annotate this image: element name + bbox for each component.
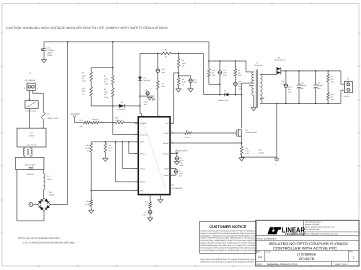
svg-text:250V, 3.15A: 250V, 3.15A <box>48 117 59 120</box>
svg-text:1206: 1206 <box>104 83 108 86</box>
svg-text:FILM: FILM <box>48 54 53 57</box>
svg-text:1206: 1206 <box>104 96 108 99</box>
svg-text:R2: R2 <box>104 88 106 91</box>
svg-text:R8: R8 <box>245 147 247 150</box>
svg-text:L: L <box>37 87 38 90</box>
svg-text:R7: R7 <box>162 82 164 85</box>
svg-text:LTC Confidential-For Customer: LTC Confidential-For Customer Use Only <box>305 232 338 235</box>
svg-text:1mH: 1mH <box>47 178 52 181</box>
svg-text:D6: D6 <box>278 56 280 59</box>
svg-text:R2: R2 <box>182 59 184 62</box>
svg-text:IC NO.: IC NO. <box>266 251 272 254</box>
svg-text:100k: 100k <box>182 62 186 65</box>
svg-text:D2: D2 <box>143 76 145 79</box>
svg-text:20pF: 20pF <box>162 71 166 74</box>
svg-text:27mH: 27mH <box>29 135 35 138</box>
svg-text:THIS CIRCUIT IS PROPRIETARY TO: THIS CIRCUIT IS PROPRIETARY TO LINEAR TE… <box>200 258 255 261</box>
svg-text:6.49k: 6.49k <box>182 81 186 84</box>
svg-text:31.6k: 31.6k <box>108 147 112 150</box>
svg-text:0.05: 0.05 <box>245 150 248 153</box>
svg-text:C21: C21 <box>162 68 165 71</box>
svg-text:CUSTOMER NOTICE: CUSTOMER NOTICE <box>209 225 247 229</box>
svg-text:CTRL3: CTRL3 <box>140 181 145 184</box>
svg-text:11: 11 <box>262 97 264 99</box>
svg-text:CAC1 0.1µF: CAC1 0.1µF <box>24 164 35 167</box>
svg-text:275VAC: 275VAC <box>27 173 35 176</box>
svg-text:C10: C10 <box>193 78 196 81</box>
svg-text:VIN/SNS: VIN/SNS <box>140 122 148 125</box>
svg-text:HD06: HD06 <box>49 194 54 197</box>
svg-text:2.49M 1%: 2.49M 1% <box>115 119 123 122</box>
svg-text:12: 12 <box>262 102 264 104</box>
svg-text:Wednesday, October 01, 2014: Wednesday, October 01, 2014 <box>267 263 298 266</box>
svg-text:R13: R13 <box>82 87 85 90</box>
svg-text:R16: R16 <box>86 200 89 203</box>
svg-text:12: 12 <box>135 133 137 135</box>
svg-text:TECHNOLOGY: TECHNOLOGY <box>285 233 306 236</box>
svg-text:R3: R3 <box>82 72 84 75</box>
svg-text:100k: 100k <box>104 77 108 80</box>
svg-text:R25: R25 <box>115 117 118 120</box>
svg-text:1206: 1206 <box>82 80 86 83</box>
svg-text:CMR1U-1000: CMR1U-1000 <box>218 99 228 102</box>
svg-text:68: 68 <box>165 56 167 59</box>
svg-text:750811296: 750811296 <box>254 64 262 67</box>
svg-text:CONTROLLER WITH ACTIVE PFC: CONTROLLER WITH ACTIVE PFC <box>273 246 337 250</box>
svg-text:CAUTION: HANDLING HIGH VOLTAGE: CAUTION: HANDLING HIGH VOLTAGE INVOLVES … <box>6 26 168 30</box>
svg-text:INTVCC: INTVCC <box>162 152 169 155</box>
svg-text:24.9k: 24.9k <box>85 203 89 206</box>
svg-text:Fax: (408)434-0507: Fax: (408)434-0507 <box>305 228 320 231</box>
svg-text:22pF: 22pF <box>193 81 197 84</box>
svg-text:LT3798MSE: LT3798MSE <box>171 187 183 190</box>
svg-text:R23: R23 <box>80 119 83 122</box>
svg-text:ISOLATED NO OPTO-COUPLER FLYBA: ISOLATED NO OPTO-COUPLER FLYBACK <box>269 242 349 246</box>
svg-text:13: 13 <box>171 152 173 154</box>
svg-text:499k: 499k <box>82 90 86 93</box>
svg-text:90 - 265VAC: 90 - 265VAC <box>25 79 36 82</box>
svg-text:EN_UVLO: EN_UVLO <box>140 133 149 136</box>
svg-text:499k: 499k <box>82 74 86 77</box>
svg-text:10: 10 <box>159 115 161 117</box>
svg-text:C5: C5 <box>145 88 147 91</box>
svg-text:F1: F1 <box>48 112 50 115</box>
svg-text:46.4k: 46.4k <box>85 147 89 150</box>
svg-text:100k: 100k <box>104 91 108 94</box>
svg-text:J1: J1 <box>29 71 31 74</box>
svg-text:SUPPLIED FOR USE WITH LINEAR T: SUPPLIED FOR USE WITH LINEAR TECHNOLOGY … <box>200 261 255 264</box>
svg-text:V1: V1 <box>28 98 30 101</box>
svg-text:R6: R6 <box>165 49 167 52</box>
svg-text:R20: R20 <box>108 144 111 147</box>
svg-text:THE CUSTOMER ASSUMES ALL RESPO: THE CUSTOMER ASSUMES ALL RESPONSIBILITY … <box>200 249 256 252</box>
svg-text:LT3798MSE: LT3798MSE <box>297 253 317 257</box>
svg-text:10: 10 <box>262 73 264 75</box>
svg-text:ACTVCC: ACTVCC <box>179 149 188 152</box>
svg-text:J2: J2 <box>347 78 349 81</box>
svg-text:TITLE: SCHEMATIC: TITLE: SCHEMATIC <box>257 237 277 240</box>
svg-text:1. ALL CAPACITORS AND RESISTOR: 1. ALL CAPACITORS AND RESISTORS ARE 0805… <box>23 241 76 244</box>
svg-text:N/A: N/A <box>258 256 263 259</box>
svg-text:10: 10 <box>171 141 173 143</box>
svg-text:SHEET 1 OF 1: SHEET 1 OF 1 <box>335 263 349 266</box>
svg-text:NOTES: UNLESS OTHERWISE SPECIF: NOTES: UNLESS OTHERWISE SPECIFIED: <box>18 237 61 240</box>
svg-text:R4: R4 <box>182 78 184 81</box>
svg-text:DATE:: DATE: <box>257 263 263 266</box>
svg-text:COMP: COMP <box>164 167 170 170</box>
svg-text:1N4148W: 1N4148W <box>118 108 126 111</box>
svg-text:BAV20W: BAV20W <box>143 79 150 82</box>
svg-text:2200pF: 2200pF <box>259 151 265 154</box>
svg-text:1206: 1206 <box>245 152 249 155</box>
svg-text:C20: C20 <box>259 149 262 152</box>
svg-text:16: 16 <box>143 115 145 117</box>
svg-text:DC1817B: DC1817B <box>299 257 315 261</box>
svg-text:COMP: COMP <box>164 174 170 177</box>
svg-text:R14: R14 <box>86 144 89 147</box>
svg-text:V0RD14P230B58: V0RD14P230B58 <box>25 110 37 112</box>
svg-text:CTRL1: CTRL1 <box>140 152 145 155</box>
svg-text:D4: D4 <box>121 101 123 104</box>
svg-text:R1: R1 <box>104 75 106 78</box>
svg-text:Q1: Q1 <box>245 128 247 131</box>
svg-text:SENSE: SENSE <box>163 142 170 145</box>
svg-text:301k 1%: 301k 1% <box>92 118 99 121</box>
svg-text:OPT: OPT <box>80 125 83 128</box>
svg-text:24V 2A: 24V 2A <box>344 95 351 98</box>
svg-text:VREF: VREF <box>140 141 145 144</box>
svg-text:CTRL2: CTRL2 <box>140 167 145 170</box>
